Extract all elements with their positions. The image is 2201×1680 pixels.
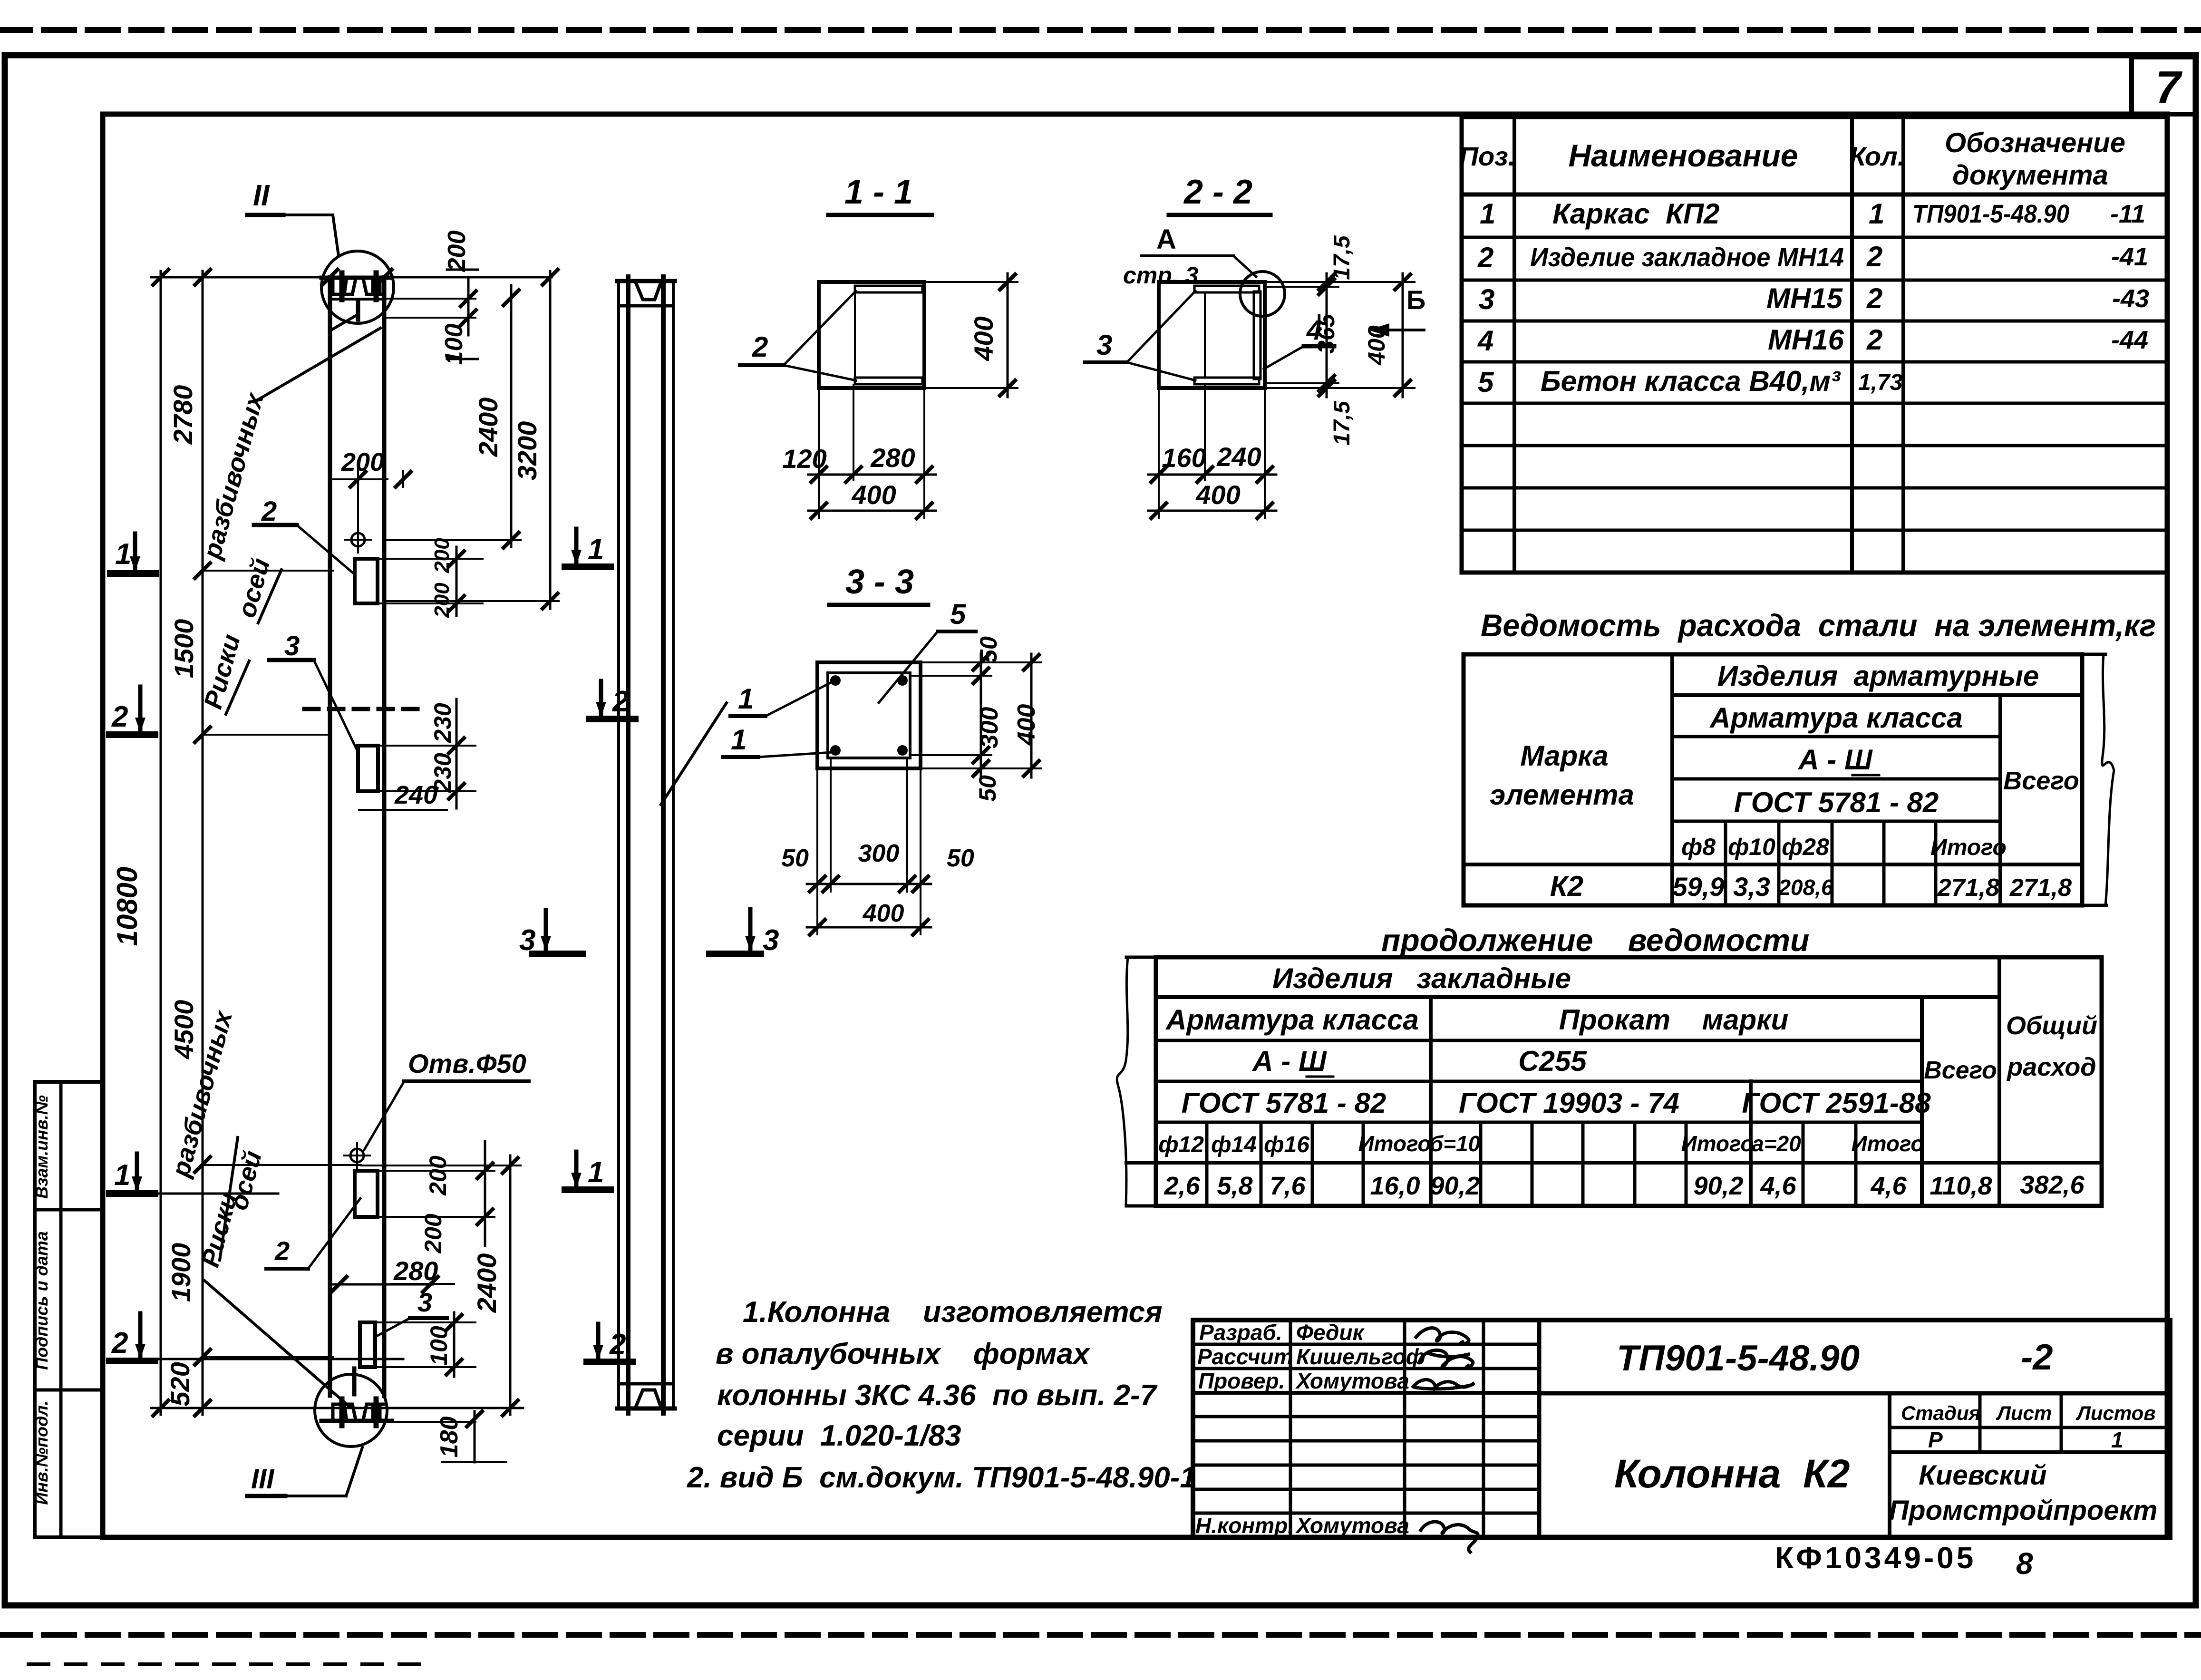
svg-text:10800: 10800 [111, 867, 143, 946]
svg-text:Хомутова: Хомутова [1295, 1513, 1409, 1538]
svg-text:3: 3 [1096, 329, 1112, 361]
dims 200/200 at lower rect [379, 1141, 494, 1246]
dims 230/230 at mid rect [380, 699, 475, 808]
svg-text:Листов: Листов [2075, 1402, 2156, 1424]
title block main text [1614, 1337, 2158, 1526]
svg-text:271,8: 271,8 [1937, 874, 1999, 902]
svg-text:Риски: Риски [199, 631, 246, 712]
svg-text:Итого: Итого [1681, 1131, 1754, 1156]
bottom dimension baseline [151, 1407, 523, 1409]
svg-text:серии 1.020-1/83: серии 1.020-1/83 [717, 1419, 961, 1452]
svg-text:-43: -43 [2112, 284, 2149, 313]
svg-text:400: 400 [863, 900, 904, 927]
detail circle III [315, 1374, 387, 1447]
svg-text:-2: -2 [2021, 1337, 2053, 1378]
embedded plates in 2-2 [1194, 286, 1260, 384]
svg-text:А - Ш: А - Ш [1251, 1045, 1327, 1077]
svg-text:колонны 3КС 4.36 по вып. 2-7: колонны 3КС 4.36 по вып. 2-7 [717, 1379, 1158, 1412]
svg-text:Изделие закладное МН14: Изделие закладное МН14 [1530, 242, 1844, 272]
svg-text:Рассчит: Рассчит [1197, 1344, 1293, 1369]
svg-text:Отв.Ф50: Отв.Ф50 [408, 1049, 526, 1078]
dims 200/200 at upper rect [379, 547, 483, 616]
svg-text:3200: 3200 [512, 421, 542, 481]
svg-text:ТП901-5-48.90: ТП901-5-48.90 [1617, 1338, 1860, 1379]
svg-text:Кол.: Кол. [1850, 141, 1905, 171]
dims 160/240/400 below 2-2 [1148, 292, 1276, 518]
svg-text:400: 400 [1013, 704, 1040, 746]
continuation table grid [1117, 957, 2102, 1206]
dims 120/280/400 below 1-1 [808, 385, 936, 518]
leader 4 section 2-2 [1264, 315, 1334, 369]
svg-text:230: 230 [429, 703, 456, 743]
svg-text:ф16: ф16 [1264, 1132, 1309, 1157]
svg-text:2: 2 [752, 331, 768, 363]
svg-text:в опалубочных формах: в опалубочных формах [716, 1338, 1091, 1370]
svg-text:Всего: Всего [1924, 1057, 1997, 1084]
svg-text:2: 2 [261, 496, 277, 527]
svg-text:-44: -44 [2111, 326, 2148, 354]
svg-text:160: 160 [1162, 443, 1206, 473]
svg-text:А: А [1156, 224, 1176, 255]
title block grid [1193, 1320, 2170, 1537]
dim 400 right of 3-3 [1013, 654, 1040, 777]
svg-text:200: 200 [430, 583, 454, 618]
section 3-3 square [817, 662, 921, 768]
top scan dashed line [0, 27, 2201, 33]
leader 2 section 1-1 [740, 291, 856, 380]
svg-text:2: 2 [111, 1327, 128, 1360]
mark 2-2 upper left [109, 687, 155, 735]
svg-text:3: 3 [763, 924, 779, 957]
svg-text:разбивочных: разбивочных [197, 389, 270, 563]
inner drawing frame [103, 114, 2167, 1537]
svg-text:8: 8 [2016, 1546, 2033, 1581]
svg-text:Марка: Марка [1520, 740, 1608, 772]
column bottom cap profile [321, 1369, 392, 1426]
dimension 3200 (top right) [386, 270, 559, 609]
svg-text:400: 400 [1195, 480, 1240, 510]
parts list rows text [1477, 198, 2149, 398]
top dimension baseline [151, 276, 552, 279]
steel table text [1490, 660, 2079, 902]
svg-text:200: 200 [425, 1156, 451, 1196]
svg-text:Инв.№подл.: Инв.№подл. [32, 1400, 51, 1505]
svg-text:Лист: Лист [1996, 1402, 2052, 1424]
svg-text:4: 4 [1477, 325, 1493, 357]
svg-text:400: 400 [851, 480, 896, 510]
svg-text:17,5: 17,5 [1329, 235, 1355, 280]
svg-text:ГОСТ 19903 - 74: ГОСТ 19903 - 74 [1459, 1087, 1679, 1119]
leader 3 section 2-2 [1085, 291, 1195, 380]
leader to circle III [204, 1281, 349, 1407]
svg-text:100: 100 [426, 1326, 452, 1366]
section 3-3 title [829, 563, 928, 605]
parts list table grid [1462, 117, 2167, 573]
svg-text:продолжение ведомости: продолжение ведомости [1381, 923, 1809, 958]
svg-text:ф8: ф8 [1681, 834, 1716, 860]
svg-text:240: 240 [1216, 442, 1261, 472]
svg-text:Киевский: Киевский [1919, 1460, 2046, 1491]
svg-text:2. вид Б см.докум. ТП901-5-48: 2. вид Б см.докум. ТП901-5-48.90-1 [687, 1461, 1196, 1494]
risk axis text (top) [197, 389, 275, 712]
svg-text:4,6: 4,6 [1760, 1172, 1796, 1200]
dim 240 below mid rect [359, 781, 447, 810]
svg-text:Прокат марки: Прокат марки [1559, 1004, 1788, 1036]
svg-text:Итого: Итого [1358, 1131, 1431, 1156]
svg-text:ГОСТ 2591-88: ГОСТ 2591-88 [1742, 1087, 1931, 1119]
title block text left [1195, 1320, 1425, 1538]
svg-text:1: 1 [1869, 198, 1884, 230]
small dims 200/100 top right [386, 280, 475, 335]
svg-text:4,6: 4,6 [1870, 1172, 1907, 1200]
leader from circle II to risk text [254, 328, 380, 402]
svg-text:90,2: 90,2 [1430, 1172, 1480, 1200]
sheet number box 7 [2132, 57, 2196, 114]
svg-text:382,6: 382,6 [2020, 1171, 2085, 1199]
continuation table text [1158, 962, 2097, 1200]
svg-text:3: 3 [1479, 283, 1494, 315]
svg-text:208,6: 208,6 [1778, 875, 1833, 900]
upper hole [345, 527, 371, 553]
svg-text:Хомутова: Хомутова [1295, 1369, 1409, 1393]
cap edge extension [388, 1421, 475, 1423]
svg-text:Стадия: Стадия [1901, 1402, 1980, 1424]
right break stub [2082, 653, 2105, 656]
svg-text:120: 120 [782, 444, 826, 474]
svg-text:16,0: 16,0 [1370, 1172, 1420, 1200]
svg-text:ГОСТ 5781 - 82: ГОСТ 5781 - 82 [1734, 787, 1939, 818]
svg-text:50: 50 [947, 845, 974, 872]
svg-text:ф28: ф28 [1782, 834, 1829, 860]
signatures [1413, 1328, 1478, 1552]
svg-text:1: 1 [588, 1156, 604, 1189]
svg-text:3 - 3: 3 - 3 [845, 563, 914, 601]
label III with leader [247, 1447, 362, 1496]
left rotated stamp boxes [35, 1082, 103, 1537]
svg-text:280: 280 [870, 443, 915, 473]
rebar dots [830, 675, 908, 756]
svg-text:Итого: Итого [1852, 1131, 1924, 1156]
svg-text:МН15: МН15 [1766, 282, 1843, 314]
svg-text:ф14: ф14 [1211, 1132, 1257, 1157]
svg-text:стр. 3: стр. 3 [1123, 262, 1199, 289]
mark 2-2 upper right [590, 681, 635, 719]
dimension 2400 (top right) [386, 285, 521, 548]
svg-text:59,9: 59,9 [1673, 872, 1725, 902]
svg-text:2: 2 [1866, 241, 1882, 272]
steel consumption table grid [1464, 654, 2114, 905]
svg-text:1900: 1900 [166, 1243, 196, 1302]
svg-text:КФ10349-05: КФ10349-05 [1775, 1541, 1976, 1575]
svg-text:осей: осей [233, 555, 276, 621]
svg-text:Разраб.: Разраб. [1199, 1320, 1282, 1345]
svg-text:520: 520 [165, 1362, 195, 1406]
svg-text:2400: 2400 [473, 398, 503, 457]
svg-text:1: 1 [731, 724, 747, 756]
notes text [687, 1296, 1196, 1494]
svg-text:III: III [251, 1464, 275, 1495]
svg-text:Арматура класса: Арматура класса [1709, 702, 1963, 734]
dims 50/300/50 right of 3-3 [912, 654, 1041, 777]
svg-text:4500: 4500 [169, 1000, 199, 1060]
section 2-2 title [1169, 173, 1270, 215]
svg-text:элемента: элемента [1490, 779, 1634, 811]
svg-text:ф10: ф10 [1728, 834, 1775, 860]
dim 400 right of 2-2 [1363, 273, 1410, 397]
svg-text:ф12: ф12 [1158, 1132, 1204, 1157]
svg-text:С255: С255 [1518, 1045, 1587, 1077]
svg-text:1 - 1: 1 - 1 [844, 173, 913, 211]
svg-text:50: 50 [975, 636, 1002, 663]
svg-text:365: 365 [1313, 313, 1339, 354]
svg-text:2,6: 2,6 [1164, 1172, 1200, 1200]
leader 2 lower [266, 1198, 360, 1269]
svg-text:200: 200 [443, 231, 471, 272]
dim 180 bottom [436, 1411, 506, 1462]
svg-text:17,5: 17,5 [1329, 400, 1355, 446]
svg-text:К2: К2 [1550, 870, 1583, 902]
svg-text:Каркас КП2: Каркас КП2 [1552, 198, 1720, 230]
svg-text:А - Ш: А - Ш [1797, 744, 1873, 776]
svg-text:2: 2 [1866, 282, 1882, 314]
svg-text:3: 3 [417, 1287, 432, 1317]
svg-text:5: 5 [1478, 366, 1494, 398]
svg-text:50: 50 [781, 845, 809, 872]
svg-text:Провер.: Провер. [1198, 1369, 1285, 1393]
column top cap profile [321, 273, 392, 329]
svg-text:Б: Б [1406, 285, 1425, 315]
dashed riska line [304, 707, 417, 711]
svg-text:Обозначение: Обозначение [1945, 127, 2125, 158]
stirrup [828, 673, 910, 758]
svg-text:ТП901-5-48.90: ТП901-5-48.90 [1912, 200, 2069, 228]
lower hole with label [344, 1143, 370, 1168]
svg-text:1: 1 [115, 538, 131, 571]
svg-text:3,3: 3,3 [1733, 872, 1770, 902]
mark 1-1 upper right [565, 529, 611, 567]
mark 2-2 lower left [109, 1313, 403, 1361]
section 2-2 square [1159, 282, 1265, 388]
leader 3 mid [269, 631, 358, 752]
svg-text:2: 2 [1866, 324, 1882, 356]
dim 400 right of 1-1 [926, 273, 1018, 397]
svg-text:2 - 2: 2 - 2 [1183, 173, 1252, 211]
svg-text:Наименование: Наименование [1569, 138, 1798, 173]
svg-text:Бетон класса В40,м³: Бетон класса В40,м³ [1541, 365, 1841, 397]
svg-text:Изделия закладные: Изделия закладные [1272, 962, 1571, 994]
svg-text:50: 50 [974, 775, 1001, 802]
svg-text:-11: -11 [2110, 200, 2145, 228]
svg-text:280: 280 [393, 1256, 438, 1286]
svg-text:90,2: 90,2 [1693, 1172, 1743, 1200]
bottom scan dashed line [0, 1635, 2201, 1664]
svg-text:а=20: а=20 [1752, 1131, 1801, 1156]
svg-text:400: 400 [969, 316, 999, 361]
mark 1-1 upper left [110, 534, 156, 573]
mark 1-1 lower right [565, 1152, 611, 1190]
dims 17,5/365/17,5 right of 2-2 [1267, 273, 1415, 397]
svg-text:2: 2 [274, 1236, 290, 1266]
svg-text:б=10: б=10 [1430, 1131, 1481, 1156]
parts list header text [1459, 127, 2125, 191]
svg-text:1: 1 [1480, 198, 1495, 230]
leader 3 lower [377, 1287, 447, 1336]
svg-text:180: 180 [436, 1417, 463, 1458]
detail A callout [1123, 224, 1285, 316]
svg-text:Всего: Всего [2003, 767, 2079, 795]
svg-text:Федик: Федик [1296, 1320, 1365, 1345]
svg-text:2400: 2400 [472, 1253, 502, 1313]
svg-text:МН16: МН16 [1768, 324, 1844, 356]
svg-text:1: 1 [2111, 1428, 2123, 1452]
mark 1-1 lower left [109, 1154, 278, 1194]
svg-text:1,73: 1,73 [1858, 370, 1903, 395]
svg-text:Колонна К2: Колонна К2 [1614, 1451, 1850, 1496]
mark 3-3 left [519, 910, 583, 957]
dimension chain 2780/1500/4500/1900/520 [203, 271, 361, 1415]
svg-text:Н.контр.: Н.контр. [1195, 1513, 1294, 1538]
mark 3-3 right [709, 909, 779, 957]
dim 100 lower rect [377, 1312, 475, 1377]
dims 50/300/50 below 3-3 [807, 760, 931, 934]
svg-text:Арматура класса: Арматура класса [1165, 1004, 1419, 1036]
svg-text:2780: 2780 [168, 385, 198, 445]
svg-text:Кишельгоф: Кишельгоф [1296, 1344, 1425, 1369]
svg-text:271,8: 271,8 [2009, 874, 2072, 902]
dim 200 above hole [333, 448, 411, 527]
section 1-1 square [819, 282, 924, 388]
svg-text:240: 240 [394, 781, 437, 809]
svg-text:Изделия арматурные: Изделия арматурные [1717, 660, 2039, 692]
svg-text:Р: Р [1928, 1428, 1943, 1452]
svg-text:Промстройпроект: Промстройпроект [1889, 1495, 2157, 1526]
dimension 10800 (outer left) [111, 270, 168, 1416]
svg-text:1: 1 [738, 683, 754, 715]
section 1-1 title [828, 173, 932, 215]
svg-text:200: 200 [430, 538, 454, 573]
view B arrow [1368, 285, 1425, 337]
svg-text:7: 7 [2155, 62, 2183, 113]
svg-text:Общий: Общий [2006, 1011, 2097, 1040]
embedded item rect (pos.3 lower) [360, 1322, 375, 1367]
dimension 2400 lower right [361, 1156, 521, 1416]
svg-text:200: 200 [420, 1214, 446, 1254]
svg-text:Итого: Итого [1930, 835, 2007, 860]
embedded plates in 1-1 [855, 286, 922, 384]
svg-text:документа: документа [1952, 160, 2108, 191]
svg-text:1.Колонна изготовляется: 1.Колонна изготовляется [743, 1296, 1163, 1329]
svg-text:Подпись и дата: Подпись и дата [32, 1231, 51, 1370]
leader 5 [879, 598, 976, 703]
column body [330, 277, 384, 1396]
svg-text:II: II [253, 179, 270, 212]
svg-text:ГОСТ 5781 - 82: ГОСТ 5781 - 82 [1182, 1087, 1387, 1119]
svg-text:200: 200 [341, 448, 384, 476]
svg-text:5,8: 5,8 [1217, 1172, 1252, 1200]
svg-text:110,8: 110,8 [1930, 1172, 1992, 1200]
svg-text:300: 300 [858, 840, 900, 867]
detail circle II [321, 251, 394, 323]
svg-text:1: 1 [588, 533, 604, 566]
svg-text:5: 5 [950, 598, 967, 630]
svg-text:2: 2 [1477, 242, 1493, 273]
svg-text:расход: расход [2006, 1053, 2096, 1081]
svg-text:Ведомость расхода стали на: Ведомость расхода стали на элемент,кг [1481, 608, 2156, 643]
embedded item rect (pos.3 mid) [358, 746, 378, 791]
svg-text:Поз.: Поз. [1459, 141, 1516, 171]
label II with leader [247, 179, 339, 256]
svg-text:7,6: 7,6 [1270, 1172, 1306, 1200]
svg-text:1: 1 [114, 1159, 130, 1192]
embedded item rect (pos.2 lower) [355, 1171, 378, 1217]
svg-text:3: 3 [284, 631, 300, 661]
leader 2 upper [254, 496, 355, 574]
svg-text:300: 300 [976, 707, 1003, 748]
svg-text:1500: 1500 [169, 619, 199, 679]
leaders 1/1 [723, 682, 832, 757]
embedded item rect (pos.2 upper) [355, 559, 378, 603]
dim 280 lower [331, 1256, 454, 1292]
mark 2-2 lower right [587, 1324, 632, 1362]
left break stub [1126, 956, 1156, 959]
svg-text:Взам.инв.№: Взам.инв.№ [32, 1095, 51, 1199]
svg-text:-41: -41 [2111, 243, 2148, 271]
risk axis text (bottom) [166, 1007, 267, 1270]
svg-text:2: 2 [111, 700, 128, 733]
leader 1 to middle column [661, 703, 727, 805]
